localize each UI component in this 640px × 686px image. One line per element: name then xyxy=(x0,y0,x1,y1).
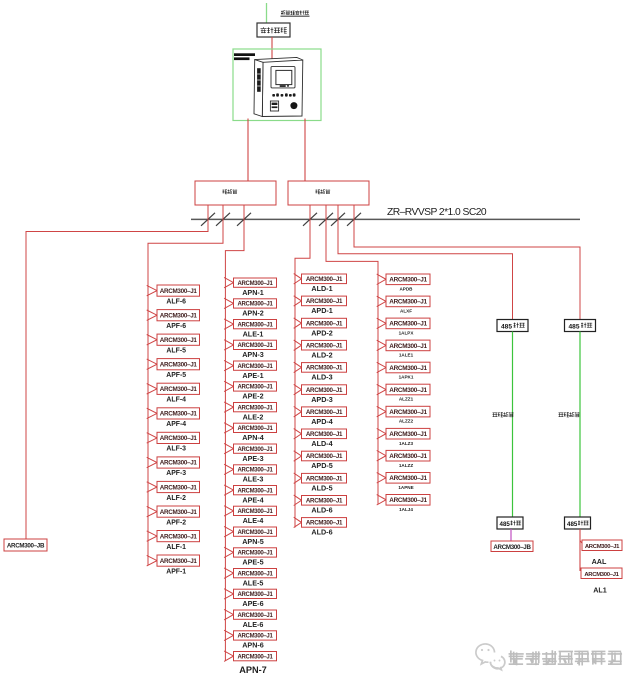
junction box 1 xyxy=(195,181,276,205)
svg-text:ARCM300–J1: ARCM300–J1 xyxy=(237,509,273,515)
device ARCM300-J1 (ALZZ1) xyxy=(386,384,430,395)
svg-text:ARCM300–J1: ARCM300–J1 xyxy=(306,365,343,372)
485 optical converter (bottom left) xyxy=(497,517,523,529)
svg-text:APN-1: APN-1 xyxy=(242,288,264,297)
svg-text:1ALJ4: 1ALJ4 xyxy=(399,507,413,512)
device ARCM300-J1 (APD-3) xyxy=(302,385,347,395)
wire tap to APN-3 xyxy=(224,340,233,350)
wire tap to 1ALZ3 xyxy=(377,429,386,439)
wire tap to APN-5 xyxy=(224,526,233,537)
svg-text:APE-5: APE-5 xyxy=(242,558,263,567)
svg-text:AAL: AAL xyxy=(592,557,607,566)
wire tap to ALZZ2 xyxy=(377,406,386,416)
svg-text:APF-5: APF-5 xyxy=(166,372,186,379)
svg-text:ARCM300–J1: ARCM300–J1 xyxy=(237,613,273,619)
wire tap to APN-2 xyxy=(224,298,233,308)
device ARCM300-J1 (APE-5) xyxy=(234,548,277,557)
wire tap to ALD-6 xyxy=(294,495,302,505)
device ARCM300-J1 (APE-4) xyxy=(234,486,277,495)
svg-text:AL1: AL1 xyxy=(593,586,607,595)
wire tap to APE-4 xyxy=(224,485,233,495)
device ARCM300-J1 (ALE-3) xyxy=(234,465,277,474)
device ARCM300-J1 (1ALE1) xyxy=(386,340,430,351)
wire: power supply to host cabinet xyxy=(271,37,273,59)
svg-text:ARCM300–J1: ARCM300–J1 xyxy=(306,387,343,394)
device ARCM300-J1 (APE-2) xyxy=(234,382,277,391)
wire tap to ALF-6 xyxy=(147,285,157,295)
wire tap to ALE-3 xyxy=(224,464,233,474)
wire tap to APD-2 xyxy=(294,318,302,328)
watermark text xyxy=(509,650,622,665)
svg-text:ARCM300–J1: ARCM300–J1 xyxy=(237,571,273,577)
wire: bus drop + spine, column 2 xyxy=(225,205,244,661)
wire tap to 1ALE1 xyxy=(377,340,386,350)
device ARCM300-J1 (APN-7) xyxy=(234,652,277,661)
terminal bars xyxy=(234,53,255,60)
svg-text:APE-4: APE-4 xyxy=(242,495,263,504)
wire tap to 1ALJ4 xyxy=(377,495,386,505)
svg-text:1APNE: 1APNE xyxy=(398,485,413,490)
svg-text:ARCM300–J1: ARCM300–J1 xyxy=(160,411,198,418)
wire tap to APDB xyxy=(377,274,386,284)
wire tap to ALE-6 xyxy=(224,609,233,620)
svg-text:ARCM300–J1: ARCM300–J1 xyxy=(389,497,427,504)
wire tap to APF-4 xyxy=(147,408,157,418)
svg-text:APD-5: APD-5 xyxy=(311,461,333,470)
svg-text:ARCM300–J1: ARCM300–J1 xyxy=(237,530,273,536)
wire tap to APF-1 xyxy=(147,555,157,566)
svg-text:ARCM300–J1: ARCM300–J1 xyxy=(585,544,620,550)
svg-text:1ALZZ: 1ALZZ xyxy=(399,463,413,468)
device ARCM300-J1 (ALE-1) xyxy=(234,320,277,329)
wire tap to ALE-2 xyxy=(224,402,233,412)
device ARCM300-J1 (ALF-4) xyxy=(157,383,200,394)
svg-text:APF-2: APF-2 xyxy=(166,519,186,526)
svg-text:ARCM300–J1: ARCM300–J1 xyxy=(306,276,343,283)
svg-text:ARCM300–J1: ARCM300–J1 xyxy=(306,431,343,438)
svg-text:ARCM300–J1: ARCM300–J1 xyxy=(237,592,273,598)
svg-text:ARCM300–J1: ARCM300–J1 xyxy=(237,468,273,474)
svg-text:ARCM300–J1: ARCM300–J1 xyxy=(160,533,198,540)
svg-text:ALF-6: ALF-6 xyxy=(166,298,186,305)
svg-text:1ALPX: 1ALPX xyxy=(399,331,415,336)
wire: converter drop to AAL/AL1 devices xyxy=(579,529,581,571)
svg-text:ARCM300–J1: ARCM300–J1 xyxy=(306,475,343,482)
svg-text:ALE-1: ALE-1 xyxy=(243,329,264,338)
svg-text:APN-4: APN-4 xyxy=(242,433,264,442)
device ARCM300-J1 (ALD-3) xyxy=(302,363,347,373)
svg-text:ARCM300–JB: ARCM300–JB xyxy=(493,544,531,551)
svg-text:ARCM300–J1: ARCM300–J1 xyxy=(160,558,198,565)
svg-text:ARCM300–J1: ARCM300–J1 xyxy=(160,362,198,369)
wire: bus drop + spine, column 4 xyxy=(326,205,378,505)
device ARCM300-J1 (ALD-5) xyxy=(302,473,347,483)
bus tap slash xyxy=(319,213,333,226)
wire tap to 1APNE xyxy=(377,473,386,483)
svg-text:ALE-2: ALE-2 xyxy=(243,412,264,421)
label: fiber type (right) xyxy=(559,413,564,417)
wire tap to ALF-2 xyxy=(147,482,157,492)
device ARCM300-J1 (1ALJ4) xyxy=(386,495,430,506)
svg-text:ALE-6: ALE-6 xyxy=(243,620,264,629)
wire tap to AAL xyxy=(580,541,584,546)
svg-text:APF-6: APF-6 xyxy=(166,323,186,330)
svg-text:APN-6: APN-6 xyxy=(242,641,264,650)
wire: converter to ARCM300-JB (magenta) xyxy=(510,529,512,541)
wire tap to ALF-4 xyxy=(147,384,157,394)
485 optical converter (bottom right) xyxy=(565,517,591,529)
device ARCM300-J1 (ALD-4) xyxy=(302,429,347,439)
device ARCM300-J1 (ALE-6) xyxy=(234,610,277,619)
wire: bus drop to 485 optical converter (left) xyxy=(338,205,513,320)
device ARCM300-J1 (ALF-3) xyxy=(157,432,200,443)
wire: optical fiber left (green) xyxy=(512,332,514,518)
device ARCM300-J1 (ALF-6) xyxy=(157,285,200,296)
svg-text:1ALE1: 1ALE1 xyxy=(399,353,414,358)
device ARCM300-J1 (APF-2) xyxy=(157,506,200,517)
device ARCM300-J1 (APF-4) xyxy=(157,408,200,419)
bus tap slash xyxy=(331,213,345,226)
device ARCM300-J1 (APN-1) xyxy=(234,278,277,287)
svg-text:ARCM300–J1: ARCM300–J1 xyxy=(306,453,343,460)
svg-text:ARCM300–J1: ARCM300–J1 xyxy=(160,509,198,516)
svg-text:APE-6: APE-6 xyxy=(242,599,263,608)
wire tap to APD-5 xyxy=(294,451,302,461)
wire: optical fiber right (green) xyxy=(579,332,581,518)
svg-text:APD-1: APD-1 xyxy=(311,306,333,315)
svg-text:ALD-2: ALD-2 xyxy=(311,350,332,359)
svg-text:ARCM300–J1: ARCM300–J1 xyxy=(237,551,273,557)
bus tap slash xyxy=(347,213,361,226)
device ARCM300-J1 (ALF-1) xyxy=(157,531,200,542)
svg-text:ARCM300–J1: ARCM300–J1 xyxy=(237,322,273,328)
svg-text:APD-4: APD-4 xyxy=(311,417,333,426)
device ARCM300-J1 (APF-5) xyxy=(157,359,200,370)
device ARCM300-J1 (1APK1) xyxy=(386,362,430,373)
svg-text:1ALZ3: 1ALZ3 xyxy=(399,441,413,446)
svg-text:APD-2: APD-2 xyxy=(311,328,333,337)
wire: cabinet to junction box 1 xyxy=(247,119,249,182)
device ARCM300-J1 (APD-4) xyxy=(302,407,347,417)
svg-text:ARCM300–J1: ARCM300–J1 xyxy=(237,488,273,494)
wire tap to ALD-4 xyxy=(294,429,302,439)
wire tap to APN-4 xyxy=(224,423,233,433)
wire tap to ALZZ1 xyxy=(377,384,386,394)
wire tap to ALE-5 xyxy=(224,568,233,579)
wire tap to APD-1 xyxy=(294,296,302,306)
wire tap to ALD-6 xyxy=(294,517,302,527)
svg-text:ARCM300–J1: ARCM300–J1 xyxy=(237,385,273,391)
wire tap to AL1 xyxy=(580,569,583,574)
svg-text:APN-7: APN-7 xyxy=(239,665,267,675)
wire tap to APE-6 xyxy=(224,589,233,599)
wire tap to ALD-3 xyxy=(294,362,302,372)
wire tap to ALD-2 xyxy=(294,340,302,350)
wire tap to APF-6 xyxy=(147,310,157,320)
svg-text:ARCM300–J1: ARCM300–J1 xyxy=(389,409,427,416)
svg-text:ARCM300–J1: ARCM300–J1 xyxy=(389,299,427,306)
label: to fire control host (Chinese, underlined) xyxy=(281,11,310,17)
svg-text:ZR–RVVSP 2*1.0 SC20: ZR–RVVSP 2*1.0 SC20 xyxy=(387,207,487,218)
device ARCM300-J1 (APN-5) xyxy=(234,527,277,536)
svg-text:ARCM300–J1: ARCM300–J1 xyxy=(389,343,427,350)
svg-text:ALE-4: ALE-4 xyxy=(243,516,264,525)
svg-text:APD-3: APD-3 xyxy=(311,395,333,404)
svg-text:APF-3: APF-3 xyxy=(166,470,186,477)
device ARCM300-J1 (APN-2) xyxy=(234,299,277,308)
RS485 bus trunk line xyxy=(191,218,580,220)
svg-text:ARCM300–J1: ARCM300–J1 xyxy=(237,343,273,349)
wire tap to 1ALZZ xyxy=(377,451,386,461)
wire tap to APN-6 xyxy=(224,630,233,640)
svg-text:APE-3: APE-3 xyxy=(242,454,263,463)
svg-text:ARCM300–J1: ARCM300–J1 xyxy=(237,364,273,370)
svg-text:APDB: APDB xyxy=(399,286,413,291)
svg-text:ARCM300–J1: ARCM300–J1 xyxy=(389,453,427,460)
wire tap to APE-2 xyxy=(224,381,233,391)
wire tap to APN-1 xyxy=(224,277,233,287)
svg-text:ARCM300–J1: ARCM300–J1 xyxy=(389,387,427,394)
wire tap to ALF-5 xyxy=(147,335,157,345)
svg-text:ARCM300–J1: ARCM300–J1 xyxy=(160,484,198,491)
svg-text:ARCM300–JB: ARCM300–JB xyxy=(7,543,45,550)
device ARCM300-J1 (ALD-2) xyxy=(302,340,347,350)
svg-text:APN-2: APN-2 xyxy=(242,309,264,318)
wire tap to ALXF xyxy=(377,296,386,306)
device ARCM300-JB (right group) xyxy=(491,541,533,552)
device ARCM300-J1 (APE-3) xyxy=(234,444,277,453)
device ARCM300-J1 (ALE-4) xyxy=(234,506,277,515)
device ARCM300-J1 (ALE-5) xyxy=(234,569,277,578)
device ARCM300-J1 (AAL) xyxy=(582,540,622,551)
wire: bus drop + spine, column 3 xyxy=(295,205,310,528)
svg-text:485: 485 xyxy=(500,521,511,528)
device ARCM300-J1 (1APNE) xyxy=(386,473,430,484)
svg-text:APE-2: APE-2 xyxy=(242,392,263,401)
svg-text:1APK1: 1APK1 xyxy=(399,375,414,380)
svg-text:ALE-5: ALE-5 xyxy=(243,578,264,587)
svg-text:ARCM300–J1: ARCM300–J1 xyxy=(389,475,427,482)
svg-text:ARCM300–J1: ARCM300–J1 xyxy=(237,405,273,411)
svg-text:ARCM300–J1: ARCM300–J1 xyxy=(237,281,273,287)
wire: bus drop to panel ARCM300-JB (far left) xyxy=(26,205,208,539)
device ARCM300-J1 (AL1) xyxy=(581,568,622,579)
svg-text:ALD-5: ALD-5 xyxy=(311,483,332,492)
svg-text:ARCM300–J1: ARCM300–J1 xyxy=(306,520,343,527)
svg-text:ARCM300–J1: ARCM300–J1 xyxy=(306,409,343,416)
wire tap to APF-5 xyxy=(147,359,157,369)
svg-text:ALXF: ALXF xyxy=(400,309,412,314)
device ARCM300-J1 (ALZZ2) xyxy=(386,406,430,417)
svg-text:ALF-3: ALF-3 xyxy=(166,446,186,453)
wire tap to ALD-5 xyxy=(294,473,302,483)
label: fiber type (left) xyxy=(493,413,498,417)
svg-text:ALD-4: ALD-4 xyxy=(311,439,332,448)
wire tap to ALF-1 xyxy=(147,531,157,541)
svg-text:ARCM300–J1: ARCM300–J1 xyxy=(237,634,273,640)
svg-text:485: 485 xyxy=(569,324,580,331)
device ARCM300-J1 (APDB) xyxy=(386,274,430,285)
wire tap to APD-3 xyxy=(294,384,302,394)
svg-text:APE-1: APE-1 xyxy=(242,371,263,380)
device ARCM300-J1 (APN-6) xyxy=(234,631,277,640)
svg-text:ARCM300–J1: ARCM300–J1 xyxy=(237,447,273,453)
svg-text:ARCM300–J1: ARCM300–J1 xyxy=(237,302,273,308)
svg-text:APN-3: APN-3 xyxy=(242,350,264,359)
wire: bus drop + spine, column 1 xyxy=(148,205,223,566)
device ARCM300-J1 (APE-6) xyxy=(234,589,277,598)
wire tap to APD-4 xyxy=(294,407,302,417)
svg-text:ALF-2: ALF-2 xyxy=(166,495,186,502)
svg-text:ARCM300–J1: ARCM300–J1 xyxy=(306,343,343,350)
svg-text:ALD-6: ALD-6 xyxy=(311,506,332,515)
bus tap slash xyxy=(237,213,251,226)
svg-text:ARCM300–J1: ARCM300–J1 xyxy=(584,572,619,578)
wire tap to APE-3 xyxy=(224,443,233,453)
svg-text:ARCM300–J1: ARCM300–J1 xyxy=(389,277,427,284)
host enclosure (green boundary) xyxy=(233,49,321,121)
svg-text:ALZZ1: ALZZ1 xyxy=(399,397,414,402)
wire tap to APN-7 xyxy=(224,651,233,662)
device ARCM300-J1 (1ALZZ) xyxy=(386,450,430,461)
power supply box (Chinese label) xyxy=(257,23,290,37)
wire: feeder from fire control host (green) xyxy=(266,3,268,23)
bus tap slash xyxy=(216,213,230,226)
svg-text:ALD-1: ALD-1 xyxy=(311,284,332,293)
device ARCM300-J1 (APE-1) xyxy=(234,361,277,370)
device ARCM300-J1 (APD-5) xyxy=(302,451,347,461)
wire tap to 1APK1 xyxy=(377,362,386,372)
device ARCM300-J1 (APN-4) xyxy=(234,423,277,432)
svg-text:ALE-3: ALE-3 xyxy=(243,475,264,484)
svg-text:APF-4: APF-4 xyxy=(166,421,186,428)
bus tap slash xyxy=(303,213,317,226)
svg-text:ARCM300–J1: ARCM300–J1 xyxy=(389,365,427,372)
svg-text:APN-5: APN-5 xyxy=(242,537,264,546)
device ARCM300-J1 (ALD-1) xyxy=(302,274,347,284)
device ARCM300-J1 (APF-3) xyxy=(157,457,200,468)
device ARCM300-J1 (APF-1) xyxy=(157,555,200,566)
wire tap to 1ALPX xyxy=(377,318,386,328)
device ARCM300-J1 (1ALZ3) xyxy=(386,428,430,439)
485 optical converter (top left) xyxy=(497,320,528,332)
wire tap to APE-5 xyxy=(224,547,233,557)
svg-text:ARCM300–J1: ARCM300–J1 xyxy=(306,320,343,327)
svg-text:ALF-5: ALF-5 xyxy=(166,348,186,355)
device ARCM300-J1 (APD-1) xyxy=(302,296,347,306)
fire monitoring host cabinet (3D view) xyxy=(254,57,303,116)
svg-text:ARCM300–J1: ARCM300–J1 xyxy=(160,460,198,467)
device ARCM300-J1 (APD-2) xyxy=(302,318,347,328)
svg-text:ALD-3: ALD-3 xyxy=(311,373,332,382)
svg-text:ARCM300–J1: ARCM300–J1 xyxy=(306,498,343,505)
wire tap to ALE-4 xyxy=(224,506,233,516)
bus tap slash xyxy=(201,213,215,226)
svg-text:ALF-4: ALF-4 xyxy=(166,397,186,404)
device ARCM300-J1 (ALD-6) xyxy=(302,496,347,506)
svg-text:ARCM300–J1: ARCM300–J1 xyxy=(160,288,198,295)
junction box 2 xyxy=(288,181,369,205)
wire: cabinet to junction box 2 xyxy=(304,119,306,182)
svg-text:ALF-1: ALF-1 xyxy=(166,544,186,551)
wire tap to ALD-1 xyxy=(294,274,302,284)
svg-text:485: 485 xyxy=(501,324,512,331)
svg-text:ARCM300–J1: ARCM300–J1 xyxy=(237,654,273,660)
485 optical converter (top right) xyxy=(565,320,596,332)
device ARCM300-J1 (APF-6) xyxy=(157,310,200,321)
svg-text:485: 485 xyxy=(567,521,578,528)
device ARCM300-JB (far left) xyxy=(4,539,47,551)
svg-text:ALD-6: ALD-6 xyxy=(311,528,332,537)
device ARCM300-J1 (ALXF) xyxy=(386,296,430,307)
svg-text:ARCM300–J1: ARCM300–J1 xyxy=(306,298,343,305)
device ARCM300-J1 (APN-3) xyxy=(234,340,277,349)
wire tap to APE-1 xyxy=(224,360,233,370)
watermark icon (WeChat) xyxy=(476,644,505,670)
wire tap to APF-2 xyxy=(147,506,157,516)
svg-text:ALZZ2: ALZZ2 xyxy=(399,419,414,424)
svg-text:ARCM300–J1: ARCM300–J1 xyxy=(160,337,198,344)
wire tap to ALF-3 xyxy=(147,433,157,443)
device ARCM300-J1 (ALE-2) xyxy=(234,403,277,412)
svg-text:APF-1: APF-1 xyxy=(166,569,186,576)
wire tap to APF-3 xyxy=(147,457,157,467)
device ARCM300-J1 (1ALPX) xyxy=(386,318,430,329)
svg-text:ARCM300–J1: ARCM300–J1 xyxy=(160,386,198,393)
svg-text:ARCM300–J1: ARCM300–J1 xyxy=(237,426,273,432)
device ARCM300-J1 (ALD-6) xyxy=(302,518,347,528)
device ARCM300-J1 (ALF-5) xyxy=(157,334,200,345)
wire tap to ALE-1 xyxy=(224,319,233,329)
device ARCM300-J1 (ALF-2) xyxy=(157,481,200,492)
wire: bus drop to 485 optical converter (right) xyxy=(354,205,580,320)
svg-text:ARCM300–J1: ARCM300–J1 xyxy=(389,321,427,328)
svg-text:ARCM300–J1: ARCM300–J1 xyxy=(160,312,198,319)
svg-text:ARCM300–J1: ARCM300–J1 xyxy=(389,431,427,438)
svg-text:ARCM300–J1: ARCM300–J1 xyxy=(160,435,198,442)
